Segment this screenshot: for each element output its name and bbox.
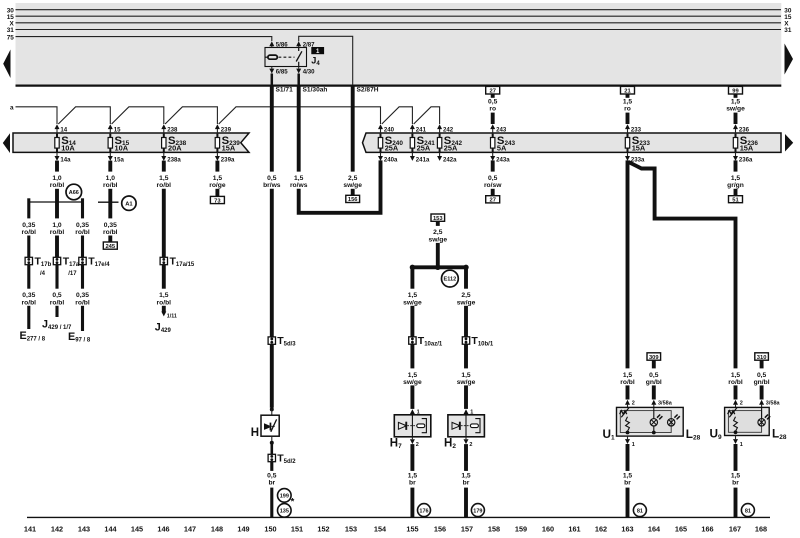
svg-text:ro/bl: ro/bl [22, 229, 37, 236]
svg-text:2,5: 2,5 [461, 292, 471, 299]
terminal 1 of U9 [733, 436, 743, 448]
wire 1,5 gr/gn from S236 to node 51 [727, 160, 744, 195]
relay terminal 4/30 [296, 67, 315, 86]
svg-text:152: 152 [317, 524, 329, 533]
svg-text:ro/bl: ro/bl [103, 229, 118, 236]
fuse S240 [378, 134, 403, 153]
node 81 right [741, 504, 754, 517]
svg-text:0,35: 0,35 [22, 292, 35, 299]
terminal 236 [733, 124, 750, 133]
relay J4 [265, 48, 307, 67]
feed diagonal 239-240 [219, 107, 381, 124]
svg-text:15a: 15a [114, 156, 125, 163]
svg-text:A1: A1 [125, 201, 133, 207]
svg-text:/17: /17 [68, 271, 77, 277]
bus 75 [7, 34, 272, 41]
wire 1,5 sw/ge from node 99 to S236 [726, 94, 745, 124]
svg-text:238: 238 [167, 126, 178, 133]
wire 0,5 br/ws S1/71 down to horn [263, 86, 281, 337]
svg-text:15A: 15A [740, 144, 754, 153]
svg-text:1,5: 1,5 [159, 175, 169, 182]
svg-text:0,5: 0,5 [649, 372, 659, 379]
svg-text:ro/bl: ro/bl [22, 299, 37, 306]
svg-text:0,5: 0,5 [757, 372, 767, 379]
svg-text:240: 240 [384, 126, 395, 133]
svg-text:*: * [291, 497, 295, 508]
svg-text:156: 156 [348, 197, 358, 203]
terminal 3/58a of U9 [759, 400, 780, 408]
svg-text:159: 159 [515, 524, 527, 533]
svg-text:27: 27 [489, 198, 495, 204]
svg-text:143: 143 [78, 524, 90, 533]
svg-text:1,0: 1,0 [52, 175, 62, 182]
node 73 (track reference box) [210, 196, 224, 204]
wire 1,5 ro/ws S1/30ah to S240 [290, 86, 381, 213]
svg-text:2: 2 [632, 401, 635, 407]
svg-text:242a: 242a [443, 156, 457, 163]
svg-text:21: 21 [624, 89, 631, 95]
svg-text:27: 27 [489, 89, 495, 95]
svg-text:15A: 15A [632, 144, 646, 153]
terminal 2 of H2 [464, 437, 473, 448]
terminal 242 [437, 124, 454, 133]
node 27 (track reference box) [486, 86, 500, 94]
svg-text:2: 2 [469, 442, 472, 448]
svg-text:ro/bl: ro/bl [157, 299, 172, 306]
ground rail [27, 516, 770, 518]
terminal 1 of H2 [464, 409, 474, 416]
wire 0,35 ro/bl to T17e [75, 198, 90, 257]
wire 0,5 ro from node 27 to S243 [488, 94, 498, 124]
svg-text:sw/ge: sw/ge [343, 182, 362, 189]
svg-text:5A: 5A [497, 144, 507, 153]
svg-text:1,5: 1,5 [731, 372, 741, 379]
node E112 [442, 270, 459, 287]
svg-text:146: 146 [157, 524, 169, 533]
svg-text:158: 158 [488, 524, 500, 533]
wire 0,5 ro/bl to J429 [50, 265, 65, 317]
svg-text:1,5: 1,5 [461, 472, 471, 479]
connector T17a/17 [53, 256, 79, 277]
svg-text:S2/87H: S2/87H [357, 86, 379, 93]
wire 2,5 sw/ge to T10b [457, 267, 476, 337]
svg-text:S1/71: S1/71 [276, 86, 294, 93]
terminal 15a [108, 152, 125, 163]
svg-text:1,5: 1,5 [408, 472, 418, 479]
svg-text:233: 233 [631, 126, 642, 133]
svg-text:153: 153 [433, 216, 443, 222]
svg-text:br: br [409, 480, 416, 487]
svg-text:1,5: 1,5 [731, 472, 741, 479]
svg-text:br/ws: br/ws [263, 182, 281, 189]
node 51 (track reference box) [729, 196, 743, 204]
wire 0,5 ro/sw from S243 [484, 160, 502, 195]
svg-text:147: 147 [184, 524, 196, 533]
relay designation box 1 [311, 47, 324, 55]
fuse S243 [491, 134, 516, 153]
wire 1,5 sw/ge to T10az [403, 267, 422, 337]
relay terminal 5/86 [269, 41, 288, 48]
node 99 (track reference box) [729, 86, 743, 94]
svg-text:br: br [732, 480, 739, 487]
fuse S239 [215, 134, 240, 153]
svg-text:242: 242 [443, 126, 454, 133]
svg-text:H: H [251, 427, 259, 439]
arrow top-right [785, 44, 794, 75]
node 81 left [633, 504, 646, 517]
svg-text:ro/bl: ro/bl [50, 229, 65, 236]
svg-text:81: 81 [637, 508, 643, 514]
svg-text:10A: 10A [61, 144, 75, 153]
connector T17b/4 [25, 256, 51, 277]
svg-text:236a: 236a [739, 156, 753, 163]
svg-text:240a: 240a [384, 156, 398, 163]
svg-text:0,5: 0,5 [267, 472, 277, 479]
svg-text:1,0: 1,0 [52, 222, 62, 229]
feed diagonal 240-241 [382, 107, 413, 124]
node 176 [418, 504, 431, 517]
svg-text:0,5: 0,5 [52, 292, 62, 299]
fuse S241 [410, 134, 435, 153]
horn H [261, 415, 279, 436]
svg-text:br: br [624, 480, 631, 487]
bus 30 [7, 7, 792, 14]
terminal 238a [161, 152, 181, 163]
wire 1,5 ro/ge from S239 [209, 161, 226, 197]
svg-text:31: 31 [784, 27, 792, 34]
svg-text:1,5: 1,5 [623, 98, 633, 105]
svg-text:0,35: 0,35 [76, 292, 89, 299]
svg-text:149: 149 [237, 524, 249, 533]
svg-text:ro/bl: ro/bl [103, 182, 118, 189]
svg-text:73: 73 [214, 198, 221, 204]
connector T10az/1 [409, 335, 443, 347]
svg-text:157: 157 [461, 524, 473, 533]
junction bar E112 [410, 265, 469, 270]
wire 1,5 br from U1 to ground rail [623, 444, 633, 517]
fuse band left segment [13, 133, 249, 152]
svg-text:1,5: 1,5 [731, 98, 741, 105]
svg-text:ro/ge: ro/ge [209, 182, 226, 189]
svg-text:2: 2 [740, 401, 743, 407]
svg-text:1,5: 1,5 [159, 292, 169, 299]
node 27 lower (track reference box) [486, 196, 500, 204]
terminal 241 [410, 124, 427, 133]
svg-text:ro/ws: ro/ws [290, 182, 308, 189]
svg-text:sw/ge: sw/ge [403, 299, 422, 306]
relay terminal 2/87 [296, 36, 353, 85]
terminal 241a [410, 152, 430, 163]
svg-text:243: 243 [496, 126, 507, 133]
svg-text:gn/bl: gn/bl [754, 379, 770, 386]
svg-text:3/58a: 3/58a [766, 401, 781, 407]
wire 0,5 gn/bl from node 309 [646, 360, 662, 399]
horn H2 [448, 415, 485, 437]
terminal 239a [215, 152, 235, 163]
terminal 236a [733, 152, 753, 163]
svg-text:141: 141 [24, 524, 36, 533]
svg-text:0,35: 0,35 [104, 222, 117, 229]
svg-text:0,5: 0,5 [488, 175, 498, 182]
lamp L28 bulb 2 [668, 415, 680, 427]
svg-text:sw/ge: sw/ge [726, 106, 745, 113]
fuse S238 [162, 134, 187, 153]
svg-text:162: 162 [595, 524, 607, 533]
svg-text:gr/gn: gr/gn [727, 182, 744, 189]
svg-text:ro/bl: ro/bl [50, 299, 65, 306]
svg-text:ro/bl: ro/bl [157, 182, 172, 189]
arrow top-left [3, 50, 10, 79]
svg-text:150: 150 [264, 524, 276, 533]
svg-text:1,5: 1,5 [213, 175, 223, 182]
cigarette lighter U1 with lamp L28 [617, 407, 684, 436]
svg-text:161: 161 [568, 524, 580, 533]
svg-text:0,35: 0,35 [76, 222, 89, 229]
svg-text:166: 166 [701, 524, 713, 533]
svg-text:1,5: 1,5 [623, 472, 633, 479]
svg-text:135: 135 [280, 509, 289, 515]
relay terminal 6/85 [269, 67, 288, 86]
svg-text:1,5: 1,5 [461, 372, 471, 379]
terminal 240 [378, 124, 395, 133]
svg-text:sw/ge: sw/ge [403, 379, 422, 386]
wire 1,0 ro/bl from S14 [50, 161, 65, 202]
node 310 (track reference box) [755, 353, 769, 361]
terminal 14 [55, 124, 68, 133]
svg-text:sw/ge: sw/ge [429, 236, 448, 243]
connector T10b/1 [462, 335, 494, 347]
svg-text:14: 14 [60, 126, 67, 133]
svg-text:0,5: 0,5 [267, 175, 277, 182]
svg-text:1,5: 1,5 [294, 175, 304, 182]
svg-text:309: 309 [649, 355, 659, 361]
bus 31 [7, 27, 792, 34]
svg-text:148: 148 [211, 524, 223, 533]
svg-text:310: 310 [757, 355, 767, 361]
terminal 2 of H7 [410, 437, 419, 448]
svg-text:S1/30ah: S1/30ah [303, 86, 328, 93]
svg-text:25A: 25A [444, 144, 458, 153]
svg-text:4/30: 4/30 [303, 68, 315, 75]
svg-text:243a: 243a [496, 156, 510, 163]
wire branch S233 to U9 [629, 162, 736, 368]
terminal 242a [437, 152, 457, 163]
feed diagonal 15-238 [112, 107, 164, 124]
connector T17e/4 [79, 256, 110, 268]
terminal 243a [490, 152, 510, 163]
connector T17a/15 [160, 256, 195, 268]
wire 0,5 br to ground rail [267, 462, 277, 518]
svg-text:25A: 25A [385, 144, 399, 153]
svg-text:167: 167 [729, 524, 741, 533]
terminal 14a [55, 152, 72, 163]
svg-text:142: 142 [51, 524, 63, 533]
node 135 [278, 504, 292, 518]
terminal 1 of H7 [410, 409, 420, 416]
svg-text:br: br [268, 480, 275, 487]
top supply band [16, 3, 782, 86]
horn H output [270, 436, 274, 454]
terminal 238 [161, 124, 178, 133]
node A1 crossbar [98, 201, 119, 203]
svg-text:0,35: 0,35 [22, 222, 35, 229]
svg-text:1/11: 1/11 [167, 314, 177, 320]
svg-text:144: 144 [104, 524, 117, 533]
svg-text:1,5: 1,5 [408, 292, 418, 299]
wire 0,35 ro/bl to node 245 [103, 222, 118, 242]
svg-text:ro/bl: ro/bl [50, 182, 65, 189]
svg-text:25A: 25A [417, 144, 431, 153]
feed diagonal 241-242 [414, 107, 440, 124]
terminal 233a [625, 152, 645, 163]
svg-text:241a: 241a [416, 156, 430, 163]
fanfare horn H7 [394, 415, 431, 437]
lamp L28 bulb 1 [650, 415, 662, 427]
node 199 [278, 489, 295, 508]
fuse S14 [55, 134, 77, 153]
svg-text:1: 1 [740, 442, 743, 448]
wire 1,5 ro/bl from S238 [157, 161, 172, 258]
wire 2,5 sw/ge S2/87H to node 156 [343, 86, 362, 195]
terminal 239 [215, 124, 232, 133]
node 21 (track reference box) [621, 86, 635, 94]
terminal 1/11 on J429 [161, 312, 177, 320]
svg-text:241: 241 [416, 126, 427, 133]
svg-text:sw/ge: sw/ge [457, 379, 476, 386]
svg-text:245: 245 [105, 244, 115, 250]
wire 1,5 ro/bl from S233 to U1 [620, 160, 635, 399]
svg-text:5/86: 5/86 [276, 42, 288, 49]
arrow fuse band right [785, 134, 793, 152]
svg-text:br: br [463, 480, 470, 487]
node 309 (track reference box) [647, 353, 661, 361]
terminal 2 of U9 [733, 400, 743, 408]
wire 0,35 ro/bl to T17b [22, 198, 37, 257]
svg-text:239: 239 [221, 126, 232, 133]
svg-text:199: 199 [280, 494, 289, 500]
fuse band right segment [363, 133, 782, 152]
wire 1,0 ro/bl to T17a [50, 202, 65, 257]
svg-text:E112: E112 [444, 276, 457, 282]
svg-text:15: 15 [114, 126, 121, 133]
svg-text:3/58a: 3/58a [658, 401, 673, 407]
wire 1,5 ro/bl branch to U9 [728, 372, 743, 400]
bus X [10, 21, 790, 28]
svg-text:A66: A66 [69, 190, 79, 196]
wire 1,5 br from H2 to ground rail [461, 444, 471, 517]
wire 1,5 ro/bl to J429 [157, 265, 172, 312]
svg-text:1,5: 1,5 [731, 175, 741, 182]
track numbers [24, 524, 767, 533]
svg-text:2,5: 2,5 [348, 175, 358, 182]
svg-text:165: 165 [675, 524, 687, 533]
arrow fuse band left [3, 133, 10, 153]
fuse S15 [108, 134, 130, 153]
svg-text:145: 145 [131, 524, 143, 533]
svg-text:1,5: 1,5 [623, 372, 633, 379]
svg-text:163: 163 [621, 524, 633, 533]
svg-text:ro/bl: ro/bl [728, 379, 743, 386]
node 156 (track reference box) [346, 195, 360, 203]
svg-text:236: 236 [739, 126, 750, 133]
svg-text:ro/bl: ro/bl [620, 379, 635, 386]
svg-text:1,5: 1,5 [408, 372, 418, 379]
wire 1,5 br from U9 to ground rail [731, 444, 741, 517]
svg-text:151: 151 [291, 524, 303, 533]
svg-text:0,5: 0,5 [488, 98, 498, 105]
svg-text:ro/bl: ro/bl [75, 229, 90, 236]
svg-text:239a: 239a [221, 156, 235, 163]
svg-text:ro: ro [624, 106, 631, 113]
terminal 3/58a of U1 [651, 400, 672, 408]
svg-text:gn/bl: gn/bl [646, 379, 662, 386]
feed diagonal 14-15 [58, 107, 110, 124]
terminal 233 [625, 124, 642, 133]
svg-text:153: 153 [345, 524, 357, 533]
svg-text:179: 179 [473, 508, 482, 514]
node 179 [471, 504, 484, 517]
fuse S233 [625, 134, 650, 153]
svg-text:1: 1 [632, 442, 635, 448]
wire 1,5 ro from node 21 to S233 [623, 94, 633, 124]
svg-text:31: 31 [7, 27, 15, 34]
wire 1,5 sw/ge to H2 [457, 344, 476, 409]
terminal 240a [378, 152, 398, 163]
svg-text:ro: ro [489, 106, 496, 113]
svg-text:238a: 238a [167, 156, 181, 163]
node A66 [66, 184, 82, 200]
terminal 2 of U1 [625, 400, 635, 408]
terminal 15 [108, 124, 121, 133]
wire 1,0 ro/bl from S15 [103, 161, 118, 219]
svg-text:176: 176 [419, 508, 428, 514]
svg-text:ro/bl: ro/bl [75, 299, 90, 306]
node a feed line [10, 104, 57, 124]
junction bar below S14 [29, 201, 83, 203]
svg-text:1,0: 1,0 [106, 175, 116, 182]
svg-text:164: 164 [648, 524, 661, 533]
wire 1,5 br from H7 to ground rail [408, 444, 418, 517]
svg-text:99: 99 [732, 89, 739, 95]
svg-text:ro/sw: ro/sw [484, 182, 502, 189]
svg-text:/4: /4 [40, 271, 46, 277]
wire 2,5 sw/ge from node 153 [429, 221, 448, 267]
svg-text:14a: 14a [60, 156, 71, 163]
svg-text:160: 160 [542, 524, 554, 533]
svg-text:2,5: 2,5 [433, 229, 443, 236]
svg-text:155: 155 [406, 524, 418, 533]
node A1 [122, 196, 136, 210]
svg-text:sw/ge: sw/ge [457, 299, 476, 306]
bus 15 [7, 14, 792, 21]
svg-text:10A: 10A [115, 144, 129, 153]
wire 0,5 gn/bl from node 310 [754, 360, 770, 399]
svg-text:6/85: 6/85 [276, 68, 288, 75]
fuse S236 [733, 134, 758, 153]
svg-text:156: 156 [434, 524, 446, 533]
cigarette lighter U9 with lamp L28 [725, 407, 770, 435]
terminal 1 of U1 [625, 436, 635, 448]
lamp L28 bulb (U9) [758, 415, 770, 427]
node 153 (track reference box) [431, 214, 445, 222]
svg-text:20A: 20A [168, 144, 182, 153]
wire 0,35 ro/bl to E277 [22, 265, 37, 329]
wire 1,5 sw/ge to H7 [403, 344, 422, 409]
wire to horn H [270, 344, 274, 415]
svg-text:168: 168 [755, 524, 767, 533]
svg-text:81: 81 [745, 508, 751, 514]
fuse S242 [437, 134, 462, 153]
